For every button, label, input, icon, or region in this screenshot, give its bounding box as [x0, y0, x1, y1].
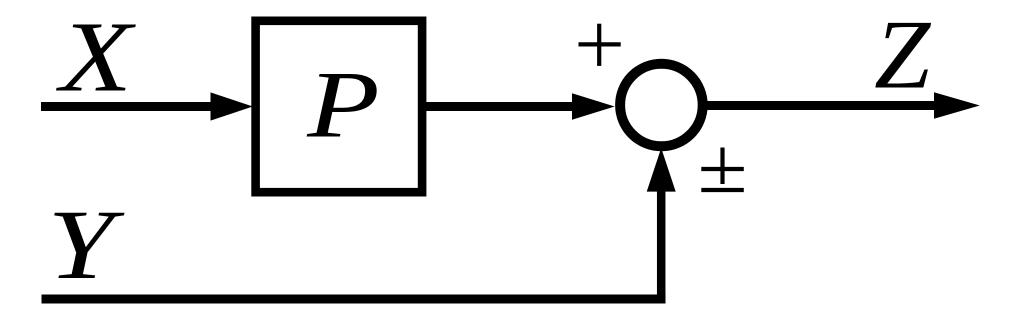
svg-text:Y: Y	[47, 189, 124, 299]
plus sign	[579, 24, 621, 66]
summing junction circle	[620, 64, 703, 147]
wire X input	[41, 102, 216, 111]
arrowhead into summing junction bottom	[647, 148, 676, 192]
svg-text:X: X	[56, 1, 137, 113]
wire summing junction to output	[706, 101, 937, 110]
output arrowhead Z	[934, 92, 980, 119]
wire Y horizontal	[42, 295, 666, 304]
plus-minus sign	[701, 148, 744, 191]
svg-text:P: P	[306, 52, 380, 157]
wire Y vertical riser	[657, 189, 666, 303]
wire P to summing junction	[424, 102, 576, 111]
arrowhead into block P	[211, 92, 253, 120]
svg-text:Z: Z	[874, 0, 932, 109]
arrowhead into summing junction	[572, 93, 615, 120]
block P	[256, 21, 423, 192]
